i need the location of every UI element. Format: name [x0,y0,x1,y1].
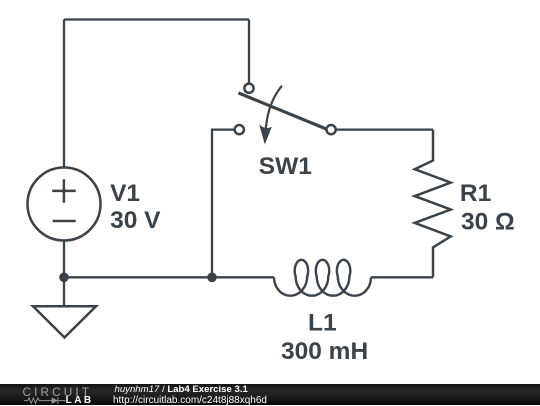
svg-text:300 mH: 300 mH [281,338,368,365]
CircuitLab logo [0,384,110,405]
node junction dot at ground [59,273,69,283]
wire left vertical to V1 [63,20,65,169]
svg-text:30 Ω: 30 Ω [461,209,515,236]
resistor R1 [415,130,451,278]
voltage source V1 [28,168,101,241]
switch SW1 motion arrow [266,86,282,131]
wire switch right terminal to resistor [337,128,433,130]
footer line2 [113,395,267,406]
label L1 300 mH [281,310,368,366]
svg-text:SW1: SW1 [259,153,312,180]
wire top horizontal [64,18,249,20]
switch SW1 terminals [235,84,336,135]
wire bottom from node to inductor [64,276,274,278]
svg-text:L1: L1 [308,310,337,337]
wire V1 bottom to ground node [63,241,65,307]
svg-text:V1: V1 [110,180,140,207]
wire right vertical to switch top [248,20,250,84]
svg-text:30 V: 30 V [110,207,161,234]
node junction dot at switch branch [207,273,217,283]
svg-text:R1: R1 [460,180,491,207]
switch SW1 blade [238,93,327,130]
label R1 30ohm [460,180,515,236]
svg-text:LAB: LAB [66,395,94,405]
inductor L1 [274,260,371,296]
ground symbol [33,306,96,337]
label V1 30 V [110,180,161,234]
wire switch left terminal to vertical [212,130,234,278]
footer bar [0,384,540,405]
wire inductor right to resistor bottom [371,276,433,278]
footer line1 [115,384,248,395]
